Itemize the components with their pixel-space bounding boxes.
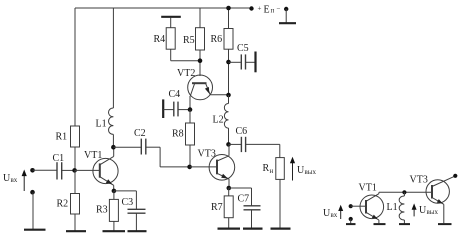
transistor VT3 <box>209 144 235 188</box>
transistor VT2 <box>188 75 229 110</box>
node C2 / R8 / VT3 base junction <box>187 165 192 170</box>
node C4 / R8 junction <box>188 107 193 112</box>
ground bar VT1 emitter <box>374 223 386 225</box>
arrow Uвх input <box>22 170 27 192</box>
svg-text:R1: R1 <box>56 132 68 143</box>
svg-text:C7: C7 <box>238 194 250 205</box>
svg-text:R4: R4 <box>154 34 166 45</box>
svg-text:VT2: VT2 <box>177 68 195 79</box>
capacitor C6 <box>229 137 280 158</box>
resistor R7 <box>224 188 233 228</box>
svg-text:L2: L2 <box>213 115 224 126</box>
svg-text:C4: C4 <box>169 89 181 100</box>
wire VT3 base <box>190 166 217 168</box>
ground bar under Rн <box>271 228 291 230</box>
svg-text:C6: C6 <box>236 126 248 137</box>
wire R5 bottom lead to VT2 base <box>199 50 201 76</box>
svg-text:C3: C3 <box>122 197 134 208</box>
node input upper terminal <box>30 168 35 173</box>
ground bar under R3 <box>103 230 126 232</box>
inductor L1 <box>109 108 114 147</box>
transistor VT1 (right) <box>360 192 384 223</box>
node L1 / VT1 collector / C2 junction <box>111 145 116 150</box>
arrow Uвх (right) <box>338 205 343 219</box>
label Uвых <box>297 165 317 176</box>
node Еп right terminal <box>284 7 288 11</box>
wire R5 top lead <box>199 8 201 28</box>
node VT3 emitter / R7 / C7 junction <box>227 186 232 191</box>
resistor R4 <box>161 17 200 61</box>
node VT1 emitter / R3 / C3 junction <box>112 189 117 194</box>
label Uвых (right) <box>419 205 439 216</box>
svg-text:VT1: VT1 <box>84 150 102 161</box>
node VT2 emitter / R6 / L2 junction <box>226 93 231 98</box>
svg-text:C5: C5 <box>237 43 249 54</box>
resistor R1 <box>71 126 80 170</box>
wire input lower to ground <box>32 192 34 229</box>
inductor L2 <box>224 95 228 144</box>
inductor L1 (right) <box>399 192 404 223</box>
capacitor C7 <box>229 188 261 228</box>
svg-text:Е: Е <box>264 5 270 16</box>
svg-text:L1: L1 <box>96 119 107 130</box>
arrow Uвых output <box>290 157 295 181</box>
power label +Еп- <box>258 5 281 16</box>
label Uвх (right) <box>323 208 338 219</box>
node VT3 collector terminal (right) <box>453 174 457 178</box>
svg-text:VT1: VT1 <box>359 183 377 194</box>
svg-text:R2: R2 <box>57 199 69 210</box>
svg-text:п: п <box>271 7 275 15</box>
wire L1 column from rail <box>112 8 114 108</box>
svg-text:вх: вх <box>11 176 18 184</box>
wire R6 top lead <box>228 8 230 29</box>
node R4-R5 junction <box>198 58 203 63</box>
ground Еп terminal bar <box>279 22 296 24</box>
node C5 tap junction <box>226 60 231 65</box>
ground bar under R7 <box>218 228 241 230</box>
resistor R6 <box>224 29 233 50</box>
svg-text:VT3: VT3 <box>410 175 428 186</box>
node input lower terminal <box>30 190 35 195</box>
svg-text:R3: R3 <box>96 205 108 216</box>
svg-text:R: R <box>263 163 270 174</box>
svg-text:вых: вых <box>427 208 439 216</box>
capacitor C4 <box>163 99 190 118</box>
ground bar VT3 emitter (right) <box>438 223 452 225</box>
svg-text:C2: C2 <box>134 128 146 139</box>
svg-text:R8: R8 <box>172 129 184 140</box>
node C1 / R1 / R2 / VT1 base junction <box>72 168 77 173</box>
transistor VT1 <box>75 147 119 191</box>
resistor Rн load <box>276 158 285 228</box>
ground bar under L1 (right) <box>399 223 410 225</box>
label Rн <box>263 163 274 175</box>
arrow Uвых (right) <box>412 203 417 216</box>
resistor R8 <box>186 110 195 167</box>
wire left column from rail to R1 <box>74 8 76 126</box>
svg-text:+: + <box>258 5 262 13</box>
capacitor C3 <box>114 191 146 231</box>
node right input upper terminal <box>349 204 353 208</box>
capacitor C1 <box>57 162 75 179</box>
ground bar under R2 <box>66 230 86 232</box>
transistor VT3 (right) <box>426 176 455 223</box>
node L1 / base junction (right) <box>402 190 406 194</box>
node rail-R6 junction <box>226 6 231 11</box>
capacitor C2 <box>113 139 189 167</box>
wire input to C1 <box>33 169 57 171</box>
svg-text:L1: L1 <box>387 202 398 213</box>
wire top supply rail <box>75 7 250 9</box>
svg-text:вх: вх <box>331 211 338 219</box>
resistor R5 <box>196 28 205 50</box>
ground bar under C3 <box>128 230 147 232</box>
svg-text:R5: R5 <box>183 35 195 46</box>
wire VT1 collector to VT3 base <box>379 191 432 193</box>
svg-text:−: − <box>277 5 281 13</box>
node L2 / C6 / VT3 collector junction <box>226 142 231 147</box>
ground bar input <box>24 229 46 231</box>
resistor R2 <box>71 170 80 230</box>
label Uвх input <box>3 173 18 184</box>
node rail right end <box>249 6 253 10</box>
ground bar right input <box>346 219 356 224</box>
svg-text:вых: вых <box>305 168 317 176</box>
node right input lower terminal <box>349 217 353 221</box>
svg-text:VT3: VT3 <box>198 149 216 160</box>
ground bar under C7 <box>243 228 263 230</box>
wire Еп terminal stem <box>285 9 287 23</box>
resistor R3 <box>109 191 118 231</box>
svg-text:C1: C1 <box>53 153 65 164</box>
capacitor C5 <box>229 52 256 73</box>
svg-text:R6: R6 <box>211 34 223 45</box>
svg-text:н: н <box>270 167 274 175</box>
wire right input to VT1 base <box>351 205 366 207</box>
svg-text:R7: R7 <box>211 202 223 213</box>
wire R6 bottom lead <box>228 49 230 95</box>
